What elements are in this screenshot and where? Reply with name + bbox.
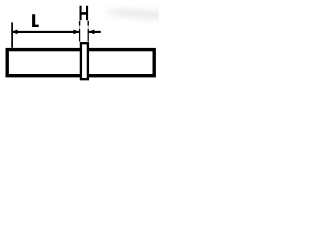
label H (drawn as path) — [80, 6, 89, 20]
extension line H left faint mid segment — [79, 26, 81, 30]
shaft body (outer tube) — [7, 50, 154, 76]
arrowhead L right / H outside left — [73, 30, 79, 35]
extension line H right upper tick — [87, 21, 89, 26]
collar (center sleeve rib) — [81, 43, 88, 79]
extension line left (L dimension) — [11, 22, 13, 47]
dimension tail H right — [88, 31, 100, 33]
faint scan shadow top-right — [107, 7, 175, 21]
label L (drawn as path) — [32, 14, 39, 27]
extension line H left upper tick — [79, 21, 81, 26]
arrowhead H right (points left) — [88, 30, 94, 35]
extension line H right faint mid segment — [87, 26, 89, 30]
arrowhead L left — [11, 30, 17, 35]
extension line H right — [87, 29, 89, 42]
extension line H left — [79, 29, 81, 42]
dimension line L — [12, 31, 79, 33]
background — [0, 0, 159, 113]
